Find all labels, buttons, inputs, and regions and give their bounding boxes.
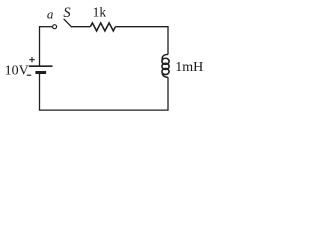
- inductor L 1mH coil top hook: [162, 54, 168, 60]
- wire right vertical below inductor: [167, 77, 169, 110]
- battery V1 negative short thick plate: [35, 71, 46, 74]
- resistor R 1k zigzag: [90, 23, 115, 31]
- svg-text:S: S: [63, 5, 71, 21]
- svg-text:10V: 10V: [5, 64, 29, 79]
- inductor L 1mH coil ring 1: [162, 58, 169, 64]
- wire left vertical below battery: [39, 73, 41, 111]
- battery V1 positive long plate: [29, 65, 53, 67]
- wire right vertical above inductor: [167, 27, 169, 55]
- switch node a terminal circle: [53, 25, 57, 29]
- svg-text:a: a: [47, 6, 54, 21]
- svg-text:1k: 1k: [93, 5, 107, 20]
- wire top-left stub (corner to node a): [40, 26, 53, 28]
- inductor L 1mH coil bottom hook: [162, 73, 168, 78]
- wire switch to resistor: [71, 26, 90, 28]
- inductor L 1mH coil ring 2: [162, 63, 169, 69]
- wire bottom: [39, 109, 169, 111]
- battery minus sign: [27, 74, 31, 76]
- inductor L 1mH coil ring 3: [162, 68, 169, 74]
- switch S blade (open arm): [64, 19, 71, 27]
- wire top right (resistor to corner): [115, 26, 168, 28]
- wire left vertical (corner down to battery + plate): [39, 26, 41, 66]
- svg-text:1mH: 1mH: [175, 60, 203, 75]
- battery plus sign: [29, 57, 34, 62]
